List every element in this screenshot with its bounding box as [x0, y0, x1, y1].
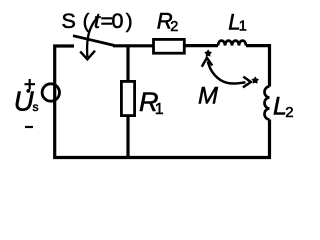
- inductor L1: [218, 41, 246, 46]
- wire: R2 right to L1 start: [186, 44, 219, 47]
- label L2: [273, 92, 294, 121]
- wire: R1 branch upper segment: [126, 46, 129, 81]
- label R1: [139, 87, 164, 118]
- svg-text:0: 0: [112, 9, 124, 33]
- svg-text:1: 1: [155, 101, 164, 118]
- wire: R1 branch lower segment: [126, 116, 129, 158]
- inductor L2: [265, 87, 270, 120]
- label R2: [157, 8, 179, 35]
- wire: outer loop (top-left stub, left side, bottom, right side up to L2 bottom): [55, 46, 270, 158]
- svg-text:M: M: [198, 82, 218, 109]
- dot mark (star) at L1 left terminal: [204, 49, 212, 56]
- minus sign: [25, 126, 33, 128]
- svg-text:2: 2: [285, 104, 293, 121]
- resistor R2: [154, 39, 185, 53]
- svg-text:): ): [126, 10, 133, 33]
- dot mark (star) at L2 top terminal: [251, 76, 259, 83]
- svg-text:U: U: [14, 86, 34, 117]
- mutual coupling arrow M (curved double arrow): [208, 62, 246, 84]
- wire: top-right segment from L1 end to right corner down to L2 top: [246, 46, 270, 87]
- switch S blade: [73, 36, 114, 46]
- switch action arrow (curved, pointing down): [87, 17, 98, 58]
- label L1: [228, 10, 246, 35]
- switch label S (t=0): [62, 9, 133, 33]
- wire: switch pivot to R2 left (through R1 T-junction): [113, 44, 153, 47]
- voltage source circle U_s: [42, 84, 59, 101]
- svg-text:1: 1: [239, 19, 247, 35]
- svg-text:s: s: [33, 100, 39, 114]
- resistor R1: [121, 81, 134, 115]
- svg-text:S: S: [62, 9, 76, 33]
- plus sign: [25, 79, 36, 90]
- label U_s (phasor dot): [14, 86, 39, 117]
- svg-text:2: 2: [170, 19, 178, 35]
- svg-text:(: (: [83, 10, 90, 33]
